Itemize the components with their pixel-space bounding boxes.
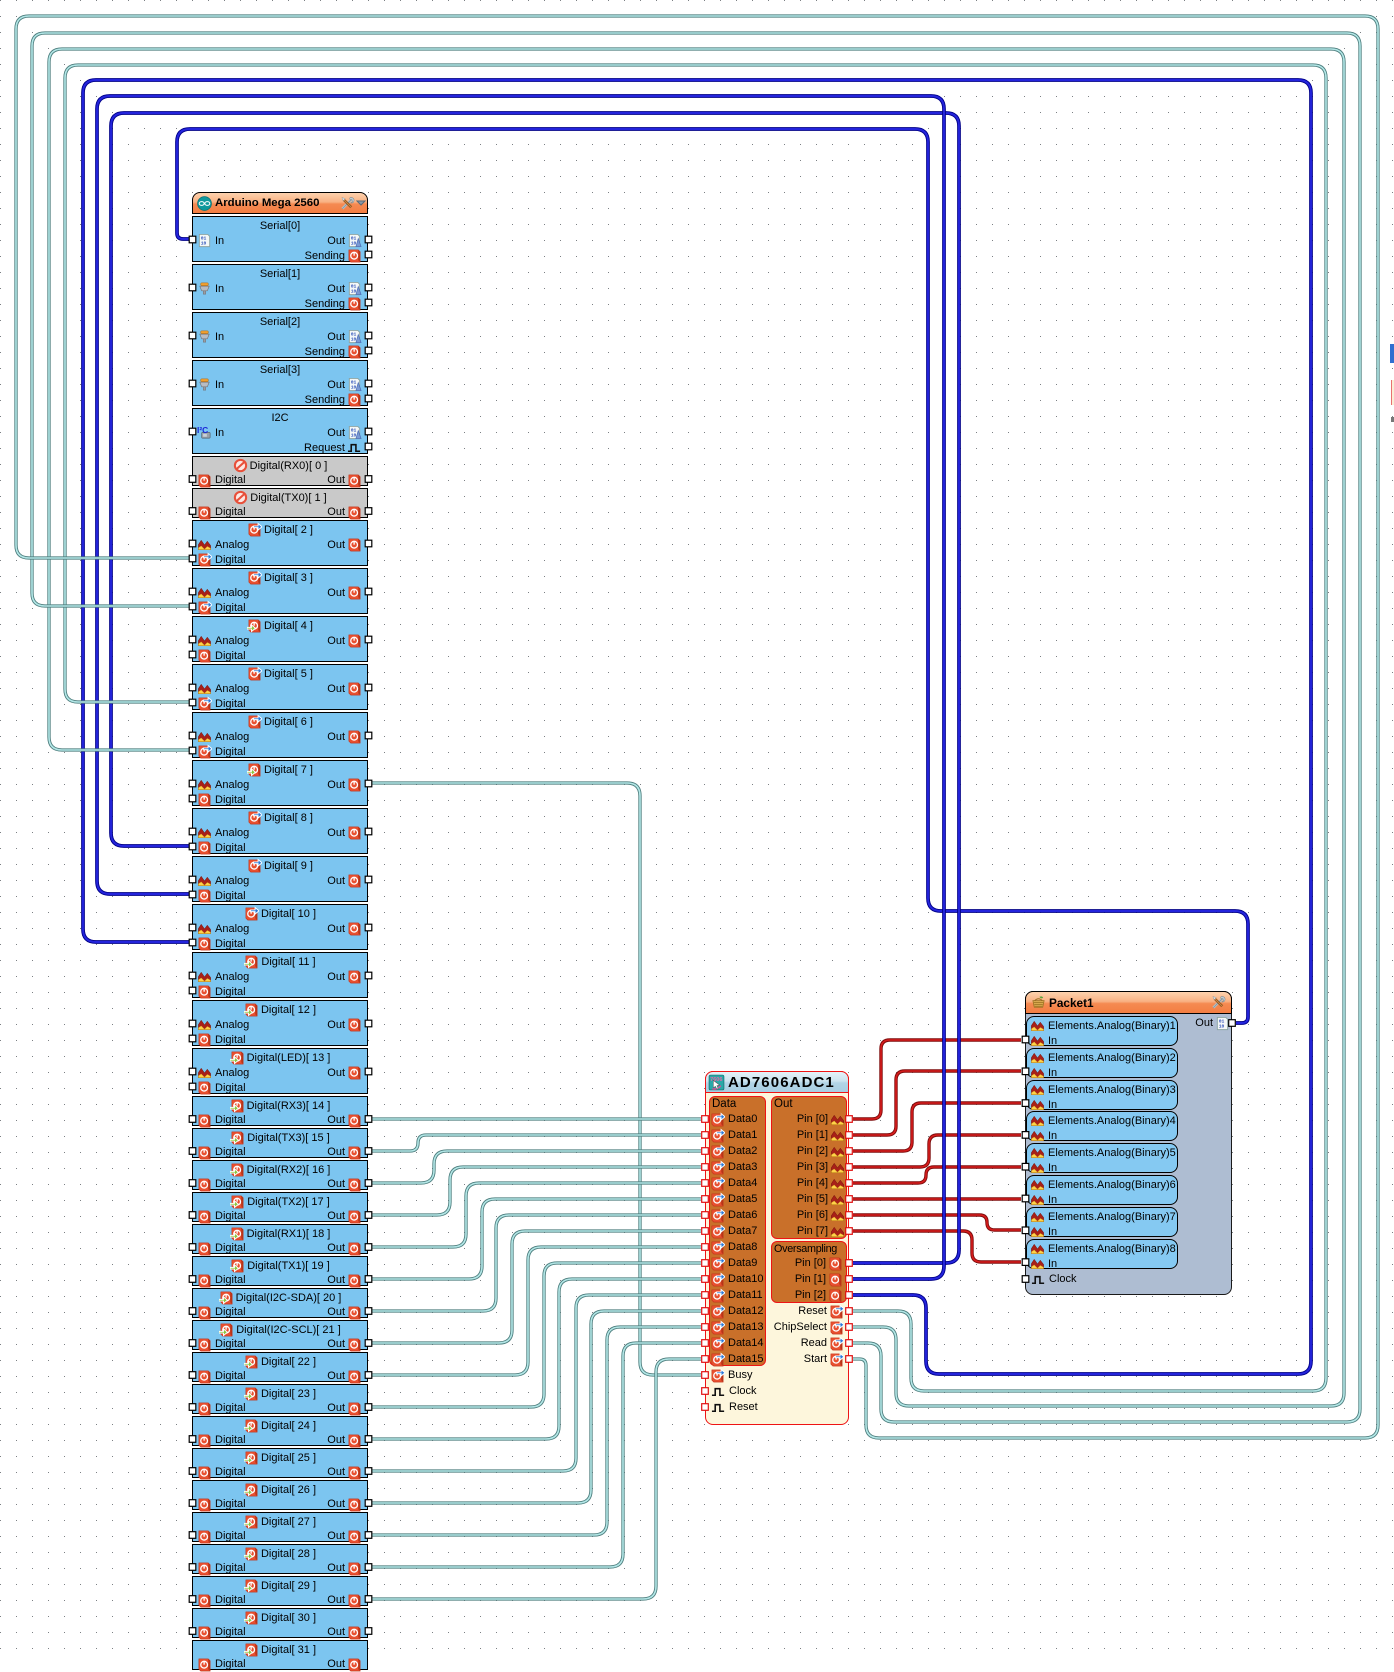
section Serial[1]	[192, 264, 368, 310]
section Digital[ 29 ]	[192, 1576, 368, 1606]
pin Out Pin[4]	[797, 1175, 845, 1191]
pin Digital(I2C-SDA)[ 20 ] left	[189, 1308, 196, 1315]
pin Digital[ 24 ] right	[365, 1436, 372, 1443]
pin Digital(RX2)[ 16 ] right	[365, 1180, 372, 1187]
pin Out Pin[6]	[797, 1207, 845, 1223]
section Digital(RX3)[ 14 ]	[192, 1096, 368, 1126]
pin Data5	[710, 1191, 757, 1207]
section Digital(TX3)[ 15 ]	[192, 1128, 368, 1158]
pin Digital[ 4 ] left	[189, 651, 196, 658]
pin Out Pin[3]	[797, 1159, 845, 1175]
pin Digital[ 8 ] left	[189, 828, 196, 835]
element Elements.Analog(Binary)5	[1026, 1143, 1178, 1173]
section Digital[ 24 ]	[192, 1416, 368, 1446]
section Digital(RX0)[ 0 ]	[192, 456, 368, 486]
section Digital[ 27 ]	[192, 1512, 368, 1542]
element Elements.Analog(Binary)2	[1026, 1048, 1178, 1078]
pin square Data2	[702, 1148, 709, 1155]
pin Digital[ 25 ] right	[365, 1468, 372, 1475]
section Digital[ 26 ]	[192, 1480, 368, 1510]
section Digital[ 25 ]	[192, 1448, 368, 1478]
pin square Oversampling Pin[2]	[846, 1292, 853, 1299]
pin Digital[ 28 ] right	[365, 1564, 372, 1571]
pin Digital[ 5 ] left	[189, 699, 196, 706]
wire D19.Out->Data5	[372, 1199, 701, 1279]
wire D26.Out->Data12	[372, 1311, 701, 1503]
pin Serial[2] right	[365, 347, 372, 354]
pin Digital[ 3 ] left	[189, 588, 196, 595]
section Serial[3]	[192, 360, 368, 406]
pin Data8	[710, 1239, 757, 1255]
pin square Oversampling Pin[0]	[846, 1260, 853, 1267]
pin Digital(RX1)[ 18 ] left	[189, 1244, 196, 1251]
section Digital[ 2 ]	[192, 520, 368, 566]
pin Digital[ 5 ] left	[189, 684, 196, 691]
pin Data13	[710, 1319, 763, 1335]
pin Digital[ 28 ] left	[189, 1564, 196, 1571]
pin In4	[1022, 1132, 1029, 1139]
section Digital[ 10 ]	[192, 904, 368, 950]
pin Digital(RX0)[ 0 ] left	[189, 476, 196, 483]
pin square Data8	[702, 1244, 709, 1251]
section Digital(RX2)[ 16 ]	[192, 1160, 368, 1190]
pin Serial[1] right	[365, 284, 372, 291]
pin Data7	[710, 1223, 757, 1239]
wire Out Pin[7]->In8	[853, 1231, 1021, 1262]
pin I2C right	[365, 443, 372, 450]
pin I2C left	[189, 428, 196, 435]
pin Data10	[710, 1271, 763, 1287]
pin Data12	[710, 1303, 763, 1319]
pin Data4	[710, 1175, 757, 1191]
pin Digital(TX1)[ 19 ] left	[189, 1276, 196, 1283]
wire Out Pin[1]->In2	[853, 1071, 1021, 1135]
pin Reset	[711, 1399, 758, 1415]
pin Data15	[710, 1351, 763, 1367]
pin Out Pin[2]	[797, 1143, 845, 1159]
pin square Data10	[702, 1276, 709, 1283]
pin Digital(TX3)[ 15 ] right	[365, 1148, 372, 1155]
pin Digital(RX0)[ 0 ] right	[365, 476, 372, 483]
pin Digital[ 7 ] right	[365, 780, 372, 787]
wire D16.Out->Data2	[372, 1151, 701, 1183]
pin Digital[ 6 ] right	[365, 732, 372, 739]
element Elements.Analog(Binary)7	[1026, 1207, 1178, 1237]
wire D23.Out->Data9	[372, 1263, 701, 1407]
pin Digital[ 31 ] right	[365, 1660, 372, 1667]
wire Oversampling Pin[0]->D8.Digital	[111, 113, 959, 1263]
wire Oversampling Pin[2]->D10.Digital	[83, 80, 1311, 1374]
pin Digital[ 10 ] left	[189, 939, 196, 946]
pin Digital[ 25 ] left	[189, 1468, 196, 1475]
wire D7.Out->Busy	[372, 783, 701, 1375]
pin Oversampling Pin[2]	[795, 1287, 843, 1303]
pin Digital[ 2 ] right	[365, 540, 372, 547]
pin In3	[1022, 1100, 1029, 1107]
section Digital[ 11 ]	[192, 952, 368, 998]
pin Data2	[710, 1143, 757, 1159]
pin Digital[ 5 ] right	[365, 684, 372, 691]
wire D15.Out->Data1	[372, 1135, 701, 1151]
pin Digital[ 9 ] left	[189, 891, 196, 898]
wire Out Pin[6]->In7	[853, 1215, 1021, 1230]
section Digital(TX2)[ 17 ]	[192, 1192, 368, 1222]
pin square Data3	[702, 1164, 709, 1171]
pin Digital[ 11 ] right	[365, 972, 372, 979]
pin Serial[0] right	[365, 236, 372, 243]
pin Digital[ 4 ] left	[189, 636, 196, 643]
pin Digital[ 7 ] left	[189, 795, 196, 802]
wire Out Pin[4]->In5	[853, 1167, 1021, 1183]
pin Serial[1] left	[189, 284, 196, 291]
Packet1 header	[1025, 991, 1232, 1014]
pin square Data12	[702, 1308, 709, 1315]
element Elements.Analog(Binary)3	[1026, 1080, 1178, 1110]
pin I2C right	[365, 428, 372, 435]
pin Oversampling Pin[1]	[795, 1271, 843, 1287]
pin Digital[ 6 ] left	[189, 732, 196, 739]
pin In1	[1022, 1036, 1029, 1043]
pin Packet1 Clock	[1031, 1271, 1077, 1287]
pin Digital(LED)[ 13 ] left	[189, 1068, 196, 1075]
section I2C	[192, 408, 368, 454]
Data panel	[709, 1096, 766, 1366]
pin square Data5	[702, 1196, 709, 1203]
pin square Start	[846, 1356, 853, 1363]
pin In8	[1022, 1259, 1029, 1266]
wire ChipSelect->Digital[6]	[49, 49, 1344, 1406]
pin Data3	[710, 1159, 757, 1175]
pin Serial[0] left	[189, 236, 196, 243]
pin square Out Pin[5]	[846, 1196, 853, 1203]
section Digital[ 23 ]	[192, 1384, 368, 1414]
pin Serial[3] right	[365, 380, 372, 387]
pin Digital[ 10 ] left	[189, 924, 196, 931]
pin Packet1 Clock	[1022, 1276, 1029, 1283]
pin Digital(I2C-SDA)[ 20 ] right	[365, 1308, 372, 1315]
pin square Reset	[702, 1404, 709, 1411]
pin Reset	[798, 1303, 844, 1319]
wire D27.Out->Data13	[372, 1327, 701, 1535]
pin square Read	[846, 1340, 853, 1347]
pin Busy	[710, 1367, 752, 1383]
pin Digital[ 30 ] right	[365, 1628, 372, 1635]
pin Serial[1] right	[365, 299, 372, 306]
pin Digital[ 23 ] right	[365, 1404, 372, 1411]
pin Digital[ 24 ] left	[189, 1436, 196, 1443]
pin Digital[ 30 ] left	[189, 1628, 196, 1635]
pin Digital(TX2)[ 17 ] left	[189, 1212, 196, 1219]
wire D25.Out->Data11	[372, 1295, 701, 1471]
pin Digital[ 11 ] left	[189, 972, 196, 979]
section Digital[ 30 ]	[192, 1608, 368, 1638]
pin Out Pin[7]	[797, 1223, 845, 1239]
wire Out Pin[2]->In3	[853, 1103, 1021, 1151]
pin Digital[ 2 ] left	[189, 555, 196, 562]
wire D21.Out->Data7	[372, 1231, 701, 1343]
pin square Reset	[846, 1308, 853, 1315]
section Digital(TX1)[ 19 ]	[192, 1256, 368, 1286]
pin Digital[ 29 ] right	[365, 1596, 372, 1603]
pin Digital[ 7 ] left	[189, 780, 196, 787]
wire Out Pin[0]->In1	[853, 1040, 1021, 1119]
pin Digital[ 22 ] left	[189, 1372, 196, 1379]
pin Digital[ 8 ] left	[189, 843, 196, 850]
section Digital(TX0)[ 1 ]	[192, 488, 368, 518]
pin Digital[ 12 ] left	[189, 1020, 196, 1027]
AD7606ADC1 block	[705, 1071, 849, 1425]
pin Digital[ 9 ] right	[365, 876, 372, 883]
element Elements.Analog(Binary)4	[1026, 1111, 1178, 1141]
pin square Out Pin[3]	[846, 1164, 853, 1171]
pin Digital(TX3)[ 15 ] left	[189, 1148, 196, 1155]
pin Digital[ 8 ] right	[365, 828, 372, 835]
pin Digital[ 12 ] right	[365, 1020, 372, 1027]
wire D22.Out->Data8	[372, 1247, 701, 1375]
wire Read->Digital[3]	[32, 33, 1360, 1422]
pin square Data9	[702, 1260, 709, 1267]
pin Data9	[710, 1255, 757, 1271]
pin Digital(I2C-SCL)[ 21 ] left	[189, 1340, 196, 1347]
pin Digital[ 3 ] right	[365, 588, 372, 595]
pin In7	[1022, 1227, 1029, 1234]
pin ChipSelect	[774, 1319, 844, 1335]
pin Data6	[710, 1207, 757, 1223]
pin Digital[ 2 ] left	[189, 540, 196, 547]
pin square Data15	[702, 1356, 709, 1363]
wire D18.Out->Data4	[372, 1183, 701, 1247]
pin Data11	[710, 1287, 763, 1303]
wire D29.Out->Data15	[372, 1359, 701, 1599]
partially visible block at right canvas edge	[1390, 344, 1394, 363]
pin Clock	[711, 1383, 757, 1399]
pin Digital[ 10 ] right	[365, 924, 372, 931]
pin Serial[0] right	[365, 251, 372, 258]
Out panel	[771, 1096, 847, 1239]
Packet1 block	[1025, 991, 1232, 1295]
pin square Out Pin[7]	[846, 1228, 853, 1235]
pin Digital(TX0)[ 1 ] left	[189, 508, 196, 515]
section Digital(LED)[ 13 ]	[192, 1048, 368, 1094]
pin Oversampling Pin[0]	[795, 1255, 843, 1271]
pin Digital[ 4 ] right	[365, 636, 372, 643]
section Digital(RX1)[ 18 ]	[192, 1224, 368, 1254]
wire D24.Out->Data10	[372, 1279, 701, 1439]
Oversampling panel	[771, 1241, 847, 1303]
AD7606ADC1 header	[705, 1071, 849, 1093]
pin Digital(LED)[ 13 ] left	[189, 1083, 196, 1090]
section Digital[ 4 ]	[192, 616, 368, 662]
Arduino Mega 2560 block header	[192, 192, 368, 214]
section Digital[ 5 ]	[192, 664, 368, 710]
pin Serial[2] right	[365, 332, 372, 339]
pin square Data0	[702, 1116, 709, 1123]
section Digital[ 28 ]	[192, 1544, 368, 1574]
pin Data1	[710, 1127, 757, 1143]
pin square Data7	[702, 1228, 709, 1235]
pin square Out Pin[4]	[846, 1180, 853, 1187]
wire D20.Out->Data6	[372, 1215, 701, 1311]
pin square Data4	[702, 1180, 709, 1187]
pin Start	[804, 1351, 844, 1367]
section Digital[ 7 ]	[192, 760, 368, 806]
pin Digital[ 22 ] right	[365, 1372, 372, 1379]
section Digital[ 22 ]	[192, 1352, 368, 1382]
pin square Data13	[702, 1324, 709, 1331]
pin Digital[ 27 ] left	[189, 1532, 196, 1539]
pin square ChipSelect	[846, 1324, 853, 1331]
pin square Out Pin[2]	[846, 1148, 853, 1155]
element Elements.Analog(Binary)6	[1026, 1175, 1178, 1205]
pin Digital(RX3)[ 14 ] right	[365, 1116, 372, 1123]
element Elements.Analog(Binary)8	[1026, 1239, 1178, 1269]
section Digital[ 12 ]	[192, 1000, 368, 1046]
pin square Out Pin[1]	[846, 1132, 853, 1139]
pin Packet1 Out	[1229, 1020, 1236, 1027]
pin Digital[ 26 ] left	[189, 1500, 196, 1507]
pin Serial[3] left	[189, 380, 196, 387]
wire D14.Out->Data0	[372, 1117, 701, 1120]
pin Serial[3] right	[365, 395, 372, 402]
pin Digital[ 27 ] right	[365, 1532, 372, 1539]
pin In2	[1022, 1068, 1029, 1075]
pin Digital(TX2)[ 17 ] right	[365, 1212, 372, 1219]
pin square Out Pin[0]	[846, 1116, 853, 1123]
section Digital(I2C-SDA)[ 20 ]	[192, 1288, 368, 1318]
pin Out Pin[1]	[797, 1127, 845, 1143]
pin Out Pin[5]	[797, 1191, 845, 1207]
wire Out Pin[5]->In6	[853, 1197, 1021, 1200]
pin square Data11	[702, 1292, 709, 1299]
pin Digital[ 31 ] left	[189, 1660, 196, 1667]
element Elements.Analog(Binary)1	[1026, 1016, 1178, 1046]
pin Digital(I2C-SCL)[ 21 ] right	[365, 1340, 372, 1347]
pin Data0	[710, 1111, 757, 1127]
pin Digital[ 23 ] left	[189, 1404, 196, 1411]
pin Data14	[710, 1335, 763, 1351]
pin Digital(LED)[ 13 ] right	[365, 1068, 372, 1075]
section Digital[ 6 ]	[192, 712, 368, 758]
pin Digital(RX3)[ 14 ] left	[189, 1116, 196, 1123]
pin square Data6	[702, 1212, 709, 1219]
section Serial[0]	[192, 216, 368, 262]
wire Reset->Digital[5]	[65, 65, 1326, 1391]
wire Packet1.Out->Serial[0].In	[177, 129, 1248, 1023]
pin square Oversampling Pin[1]	[846, 1276, 853, 1283]
pin square Clock	[702, 1388, 709, 1395]
section Digital(I2C-SCL)[ 21 ]	[192, 1320, 368, 1350]
pin In5	[1022, 1163, 1029, 1170]
pin square Data14	[702, 1340, 709, 1347]
section Digital[ 9 ]	[192, 856, 368, 902]
pin Digital(RX1)[ 18 ] right	[365, 1244, 372, 1251]
pin Packet1 Out	[1195, 1015, 1230, 1031]
pin Digital(TX0)[ 1 ] right	[365, 508, 372, 515]
wire D28.Out->Data14	[372, 1343, 701, 1567]
section Serial[2]	[192, 312, 368, 358]
pin square Data1	[702, 1132, 709, 1139]
pin Read	[801, 1335, 844, 1351]
pin Digital[ 3 ] left	[189, 603, 196, 610]
wire Out Pin[3]->In4	[853, 1135, 1021, 1167]
pin In6	[1022, 1195, 1029, 1202]
wire D17.Out->Data3	[372, 1167, 701, 1215]
section Digital[ 3 ]	[192, 568, 368, 614]
pin Digital[ 9 ] left	[189, 876, 196, 883]
pin Digital(RX2)[ 16 ] left	[189, 1180, 196, 1187]
section Digital[ 31 ]	[192, 1640, 368, 1670]
pin square Out Pin[6]	[846, 1212, 853, 1219]
pin Serial[2] left	[189, 332, 196, 339]
pin Digital[ 29 ] left	[189, 1596, 196, 1603]
pin Digital[ 12 ] left	[189, 1035, 196, 1042]
pin Digital[ 6 ] left	[189, 747, 196, 754]
wire Oversampling Pin[1]->D9.Digital	[97, 96, 944, 1279]
section Digital[ 8 ]	[192, 808, 368, 854]
pin Digital(TX1)[ 19 ] right	[365, 1276, 372, 1283]
pin Out Pin[0]	[797, 1111, 845, 1127]
pin Digital[ 11 ] left	[189, 987, 196, 994]
pin square Busy	[702, 1372, 709, 1379]
pin Digital[ 26 ] right	[365, 1500, 372, 1507]
